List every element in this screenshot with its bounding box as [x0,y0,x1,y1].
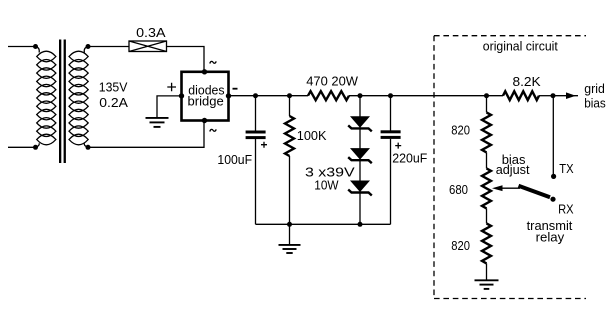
node bridge right terminal [226,93,231,98]
wire primary bottom lead [8,146,36,148]
wire main bus segment A [229,95,309,97]
resistor R1 470 20W [308,91,349,100]
svg-text:original circuit: original circuit [483,39,558,54]
node bridge left terminal [179,93,184,98]
wire bridge plus to ground [157,96,182,117]
wire resistor R2 top lead [289,96,291,116]
svg-text:220uF: 220uF [392,151,427,166]
resistor R6 820 bottom [482,223,491,263]
relay blade [519,186,551,198]
arrow grid bias head [566,92,576,99]
svg-text:0.2A: 0.2A [99,95,128,110]
svg-text:10W: 10W [314,177,339,192]
wire R5 to R6 [486,208,488,223]
fuse F1 body [129,41,167,52]
node resistor R2 branch [287,93,292,98]
node TX contact [551,174,556,179]
node bridge top terminal [202,69,207,74]
svg-text:RX: RX [558,202,574,217]
ground middle [279,245,301,253]
ground divider [475,280,499,289]
svg-text:TX: TX [559,161,574,176]
label plus bridge [167,83,176,91]
wiper arrow head [492,185,503,191]
wire bottom rail [256,223,391,225]
node RX contact [550,197,555,202]
capacitor C1 100uF plates [246,131,266,140]
svg-text:8.2K: 8.2K [513,74,542,89]
resistor R4 820 top [482,112,491,152]
node zener branch [358,93,363,98]
diode bridge U1 box [182,72,229,121]
wire grid bias arrow line [553,95,578,97]
zener diode D1 [348,116,372,131]
wire secondary bottom to bridge bottom [88,121,204,148]
ground bridge [146,118,169,127]
wire TX contact vertical [552,96,554,176]
node rail zener branch [358,222,363,227]
dashed box top edge [434,35,586,37]
svg-text:grid: grid [584,81,605,96]
label minus bridge [233,88,238,90]
svg-text:bias: bias [584,95,606,110]
wire middle ground stem [289,224,291,244]
transformer T1 primary winding [36,47,56,148]
svg-text:relay: relay [536,230,565,245]
dashed box left edge [433,36,435,299]
svg-text:470 20W: 470 20W [306,73,359,88]
node divider branch [484,93,489,98]
node grid bias junction [551,93,556,98]
svg-text:100uF: 100uF [217,152,252,167]
node primary top junction [33,44,38,49]
label tilde AC bottom [210,129,216,131]
capacitor C2 220uF plates [381,130,401,139]
svg-text:680: 680 [449,182,468,197]
svg-text:820: 820 [451,123,470,138]
wire divider ground stem [486,263,488,279]
node cap C1 branch [253,93,258,98]
wire R4 to R5 [486,152,488,168]
svg-text:100K: 100K [297,128,327,143]
svg-text:0.3A: 0.3A [136,25,166,40]
wire secondary top to fuse [88,46,129,48]
transformer T1 secondary winding [69,47,88,148]
node rail R2 branch [287,222,292,227]
wire cap C2 bottom lead [390,139,392,225]
label tilde AC top [210,61,216,63]
wire main bus segment C [539,95,553,97]
wire resistor R2 bottom lead [289,156,291,224]
svg-text:135V: 135V [99,80,128,95]
wire fuse to bridge top [167,47,205,72]
node primary bottom junction [33,145,38,150]
wire primary top lead [8,46,36,48]
node bridge bottom terminal [202,118,207,123]
wire divider top lead [486,96,488,113]
fuse F1 cross [129,41,167,52]
resistor R2 100K [285,116,294,156]
wire main bus segment B [349,95,503,97]
node secondary top junction [86,44,91,49]
wire cap C1 bottom lead [255,139,257,224]
dashed box bottom edge [434,298,586,300]
svg-text:bridge: bridge [188,93,224,108]
zener diode D2 [348,148,372,163]
node secondary bottom junction [86,145,91,150]
resistor R3 8.2K [503,91,539,100]
transformer T1 core [59,40,66,164]
wire cap C2 top lead [390,96,392,131]
node cap C2 branch [388,93,393,98]
wire cap C1 top lead [255,96,257,131]
potentiometer R5 680 [482,168,491,208]
svg-text:820: 820 [451,238,470,253]
wire zener branch vertical [359,96,361,225]
label plus C2 [395,143,401,149]
label plus C1 [261,142,267,148]
svg-text:adjust: adjust [496,162,530,177]
wiper arrow line [500,187,520,189]
zener diode D3 [348,181,372,196]
